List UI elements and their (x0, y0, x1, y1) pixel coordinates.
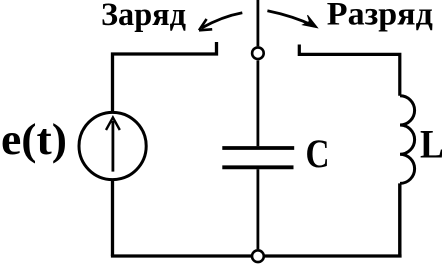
svg-text:e(t): e(t) (1, 115, 67, 164)
svg-text:Заряд: Заряд (101, 0, 186, 33)
svg-text:L: L (420, 122, 442, 167)
svg-text:C: C (306, 131, 330, 176)
svg-text:Разряд: Разряд (327, 0, 433, 33)
